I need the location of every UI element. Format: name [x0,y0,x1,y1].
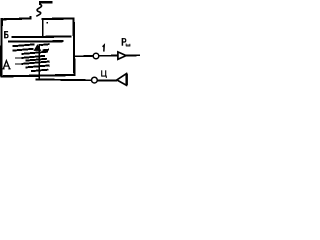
winding row 4 tail [15,57,22,59]
label 1 [103,45,105,52]
winding row 4 [22,56,46,58]
label P_out [122,38,125,46]
winding row 2 right [42,49,49,52]
wire after nozzle to edge [126,54,140,56]
box bottom edge [1,75,74,76]
label Ц [102,70,107,78]
terminal label А [3,61,11,69]
rod segment inside box to plate [42,19,44,37]
wire output bottom [35,79,117,80]
wire circle1 to nozzle [99,55,118,57]
winding row 2 left [13,49,34,51]
plate line 2 [8,40,64,43]
wiper shaft [38,44,40,80]
winding row 7 [25,65,49,67]
dot node inside top [46,22,48,24]
wire top terminal vertical rod [39,2,41,5]
label P_out subscript вых [126,44,130,47]
box top edge left segment [1,18,32,19]
winding row 5 [25,59,47,61]
wiper arrow [34,44,42,51]
winding row 6 tail [15,63,22,65]
wire output top [74,55,93,57]
plate line 1 [12,35,72,38]
nozzle triangle right-pointing [118,52,126,59]
tick at gap left [30,16,32,19]
box top edge right segment [42,18,75,20]
supply triangle base bar [125,74,127,86]
terminal label Б [4,31,8,38]
winding row 6 [22,62,50,64]
wire top terminal horizontal [39,1,53,4]
box right edge [72,18,75,77]
winding row 1 left [13,44,35,46]
node circle 2 [92,77,98,83]
spring (flexure) on rod [36,4,41,16]
box left edge [0,18,3,77]
supply triangle left-pointing [117,74,127,86]
node circle 1 [93,53,99,59]
winding row 3 [22,52,48,54]
winding row 8 [31,70,48,72]
winding row 1 right [40,43,49,46]
